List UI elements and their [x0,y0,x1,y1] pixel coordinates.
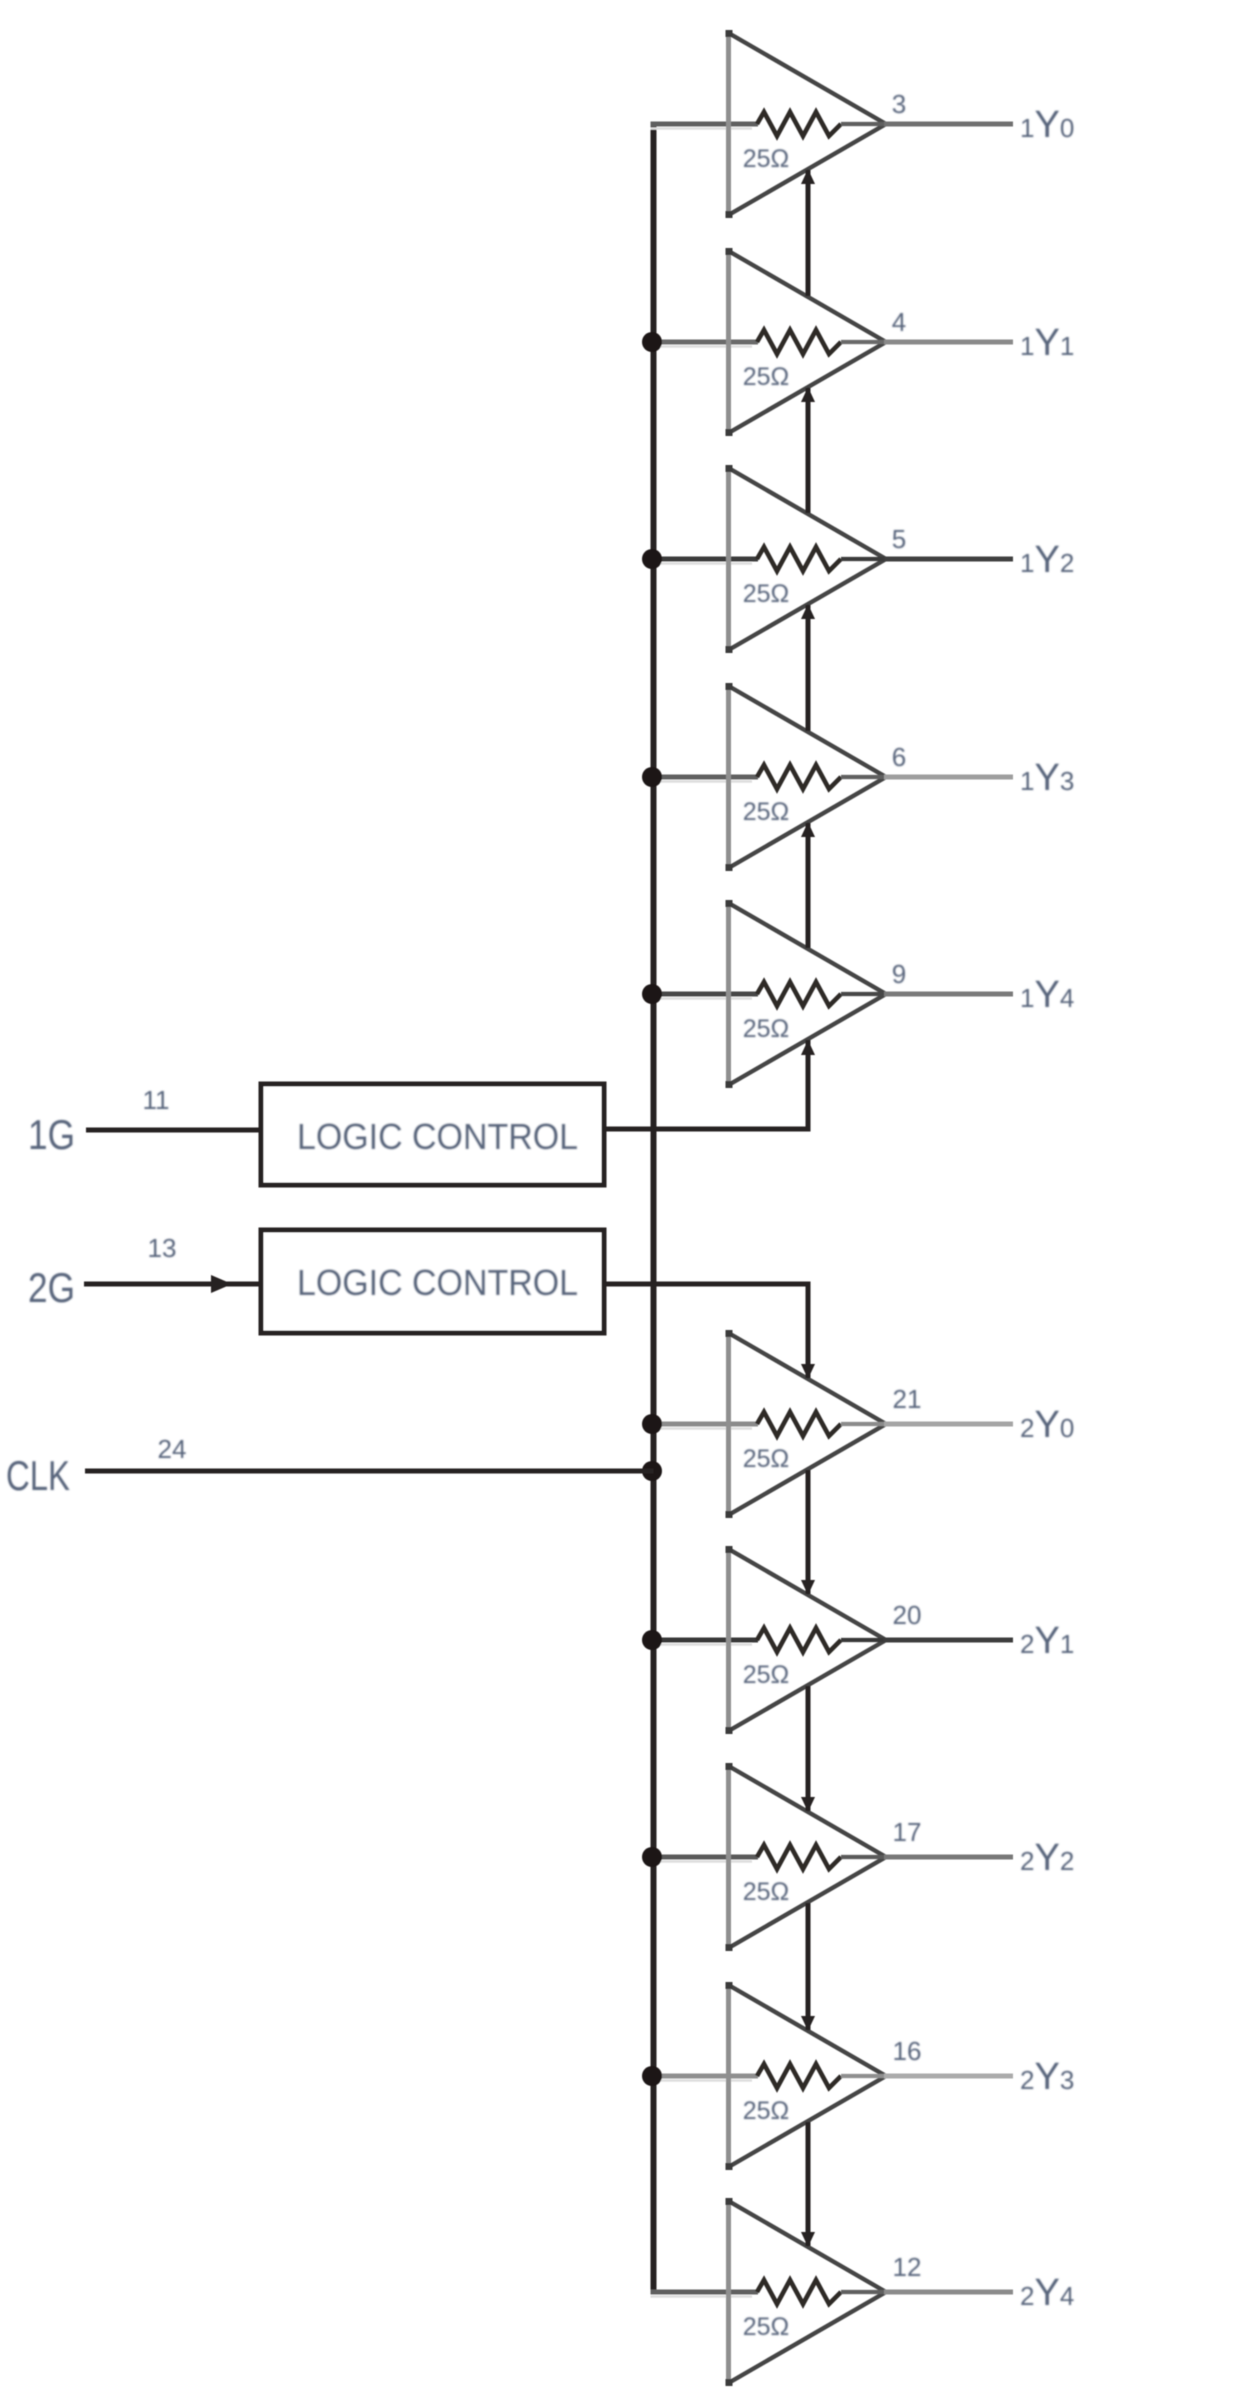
svg-text:25Ω: 25Ω [743,1015,790,1043]
wire: enable segment with up arrow into buffer U1 [801,169,815,296]
wire output of buffer U7 [884,1638,1013,1643]
wire: enable segment with up arrow into buffer U3 [801,604,815,731]
wire output of buffer U8 [884,1855,1013,1860]
wire output of buffer U6 [884,1422,1013,1427]
svg-text:17: 17 [893,1817,922,1847]
resistor R8 inside buffer U8 [757,1845,886,1869]
svg-text:25Ω: 25Ω [743,580,790,608]
wire input stub to buffer U7 (net 2A) [651,1640,759,1645]
buffer amplifier U3 (triangle) [726,465,887,653]
logic control block 2 [261,1230,604,1333]
wire output of buffer U10 [884,2290,1013,2295]
wire input CLK to bus [85,1469,654,1474]
svg-text:25Ω: 25Ω [743,1445,790,1473]
svg-text:21: 21 [893,1384,922,1414]
wire input stub to buffer U6 (net 2A) [651,1424,759,1429]
junction node on bus at y=1424 [642,1414,662,1434]
wire input 2G to logic control 2 with arrow [84,1275,261,1293]
wire output of buffer U5 [884,992,1013,997]
svg-text:16: 16 [893,2036,922,2066]
junction node on bus at y=777 [642,767,662,787]
wire input stub to buffer U10 (net 2A) [651,2292,759,2297]
buffer amplifier U5 (triangle) [726,900,887,1088]
junction node on bus at y=2076 [642,2066,662,2086]
buffer amplifier U4 (triangle) [726,683,887,871]
wire output of buffer U1 [884,122,1013,127]
resistor R7 inside buffer U7 [757,1628,886,1652]
svg-text:11: 11 [143,1085,170,1115]
wire: enable segment with down arrow into buffer U10 [801,2122,815,2247]
wire input stub to buffer U4 (net 1A) [651,777,759,782]
svg-text:LOGIC CONTROL: LOGIC CONTROL [297,1116,578,1157]
svg-text:25Ω: 25Ω [743,1661,790,1689]
wire output of buffer U4 [884,775,1013,780]
svg-text:4: 4 [892,307,906,337]
resistor R6 inside buffer U6 [757,1412,886,1436]
buffer amplifier U2 (triangle) [726,248,887,436]
svg-text:25Ω: 25Ω [743,798,790,826]
buffer amplifier U6 (triangle) [726,1330,887,1518]
wire: main CLK distribution bus (vertical) [651,125,657,2292]
resistor R1 inside buffer U1 [757,112,886,136]
svg-text:24: 24 [158,1434,187,1464]
junction node on bus at y=559 [642,549,662,569]
svg-text:12: 12 [893,2252,922,2282]
wire input stub to buffer U2 (net 1A) [651,342,759,347]
buffer amplifier U10 (triangle) [726,2198,887,2386]
wire output of buffer U9 [884,2074,1013,2079]
junction node: CLK joins bus [642,1461,662,1481]
buffer amplifier U9 (triangle) [726,1982,887,2170]
svg-text:25Ω: 25Ω [743,2097,790,2125]
svg-text:6: 6 [892,742,906,772]
resistor R9 inside buffer U9 [757,2064,886,2088]
svg-text:CLK: CLK [6,1452,70,1499]
logic control block 1 [261,1084,604,1185]
wire: enable segment with down arrow into buffer U8 [801,1686,815,1812]
wire: enable segment with down arrow into buffer U7 [801,1470,815,1595]
wire input stub to buffer U8 (net 2A) [651,1857,759,1862]
wire: enable segment with down arrow into buffer U9 [801,1903,815,2031]
svg-text:25Ω: 25Ω [743,145,790,173]
wire output of buffer U2 [884,340,1013,345]
svg-text:9: 9 [892,959,906,989]
resistor R10 inside buffer U10 [757,2280,886,2304]
wire input stub to buffer U9 (net 2A) [651,2076,759,2081]
svg-text:3: 3 [892,89,906,119]
junction node on bus at y=994 [642,984,662,1004]
wire: enable segment with up arrow into buffer U4 [801,822,815,948]
wire input stub to buffer U5 (net 1A) [651,994,759,999]
wire: enable from LOGIC CONTROL 1 to buffer chain (up) [604,1040,815,1129]
svg-text:5: 5 [892,524,906,554]
buffer amplifier U1 (triangle) [726,30,887,218]
wire input stub to buffer U1 (net 1A) [651,124,759,129]
svg-text:2G: 2G [28,1264,75,1311]
resistor R5 inside buffer U5 [757,982,886,1006]
svg-text:LOGIC CONTROL: LOGIC CONTROL [297,1262,578,1303]
wire: enable from LOGIC CONTROL 2 to buffer chain (down) [604,1284,815,1379]
wire input stub to buffer U3 (net 1A) [651,559,759,564]
wire output of buffer U3 [884,557,1013,562]
svg-text:25Ω: 25Ω [743,363,790,391]
buffer amplifier U7 (triangle) [726,1546,887,1734]
wire input 1G to logic control 1 [86,1128,261,1133]
svg-text:25Ω: 25Ω [743,1878,790,1906]
junction node on bus at y=1640 [642,1630,662,1650]
buffer amplifier U8 (triangle) [726,1763,887,1951]
svg-text:20: 20 [893,1600,922,1630]
resistor R3 inside buffer U3 [757,547,886,571]
resistor R2 inside buffer U2 [757,330,886,354]
wire: enable segment with up arrow into buffer U2 [801,387,815,513]
svg-text:25Ω: 25Ω [743,2313,790,2341]
svg-text:13: 13 [148,1233,177,1263]
junction node on bus at y=342 [642,332,662,352]
svg-text:1G: 1G [28,1111,75,1158]
resistor R4 inside buffer U4 [757,765,886,789]
junction node on bus at y=1857 [642,1847,662,1867]
